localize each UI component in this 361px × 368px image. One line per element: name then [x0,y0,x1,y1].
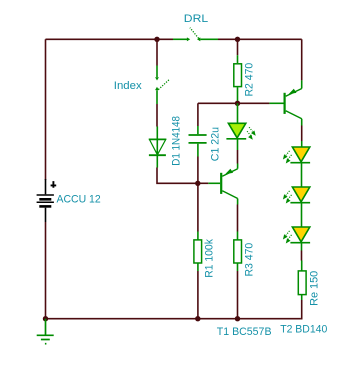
wire top rail left segment [46,38,174,40]
wire index branch upper [156,39,158,65]
LED D2 (green) anode stub [237,103,239,123]
resistor Re 150 [298,261,306,301]
resistor R2 470 [237,39,239,55]
wire node Y to R1 [197,183,199,231]
svg-text:DRL: DRL [184,13,208,25]
resistor R1 100k [194,232,202,272]
wire node X horizontal to C1 corner [198,102,238,104]
ground [37,319,54,344]
wire R3 to bottom rail [237,271,239,319]
svg-text:T2 BD140: T2 BD140 [280,324,327,336]
svg-text:R1 100k: R1 100k [204,238,216,277]
wire R1 to bottom rail [197,271,199,319]
wire right vertical top (T2 emitter to rail) [301,39,303,80]
wire top rail right segment [218,38,302,40]
resistor R3 470 [234,232,242,272]
node junction bottom-left / ground [43,316,48,321]
capacitor C1 22u [189,126,207,157]
LED D2 green [226,123,246,150]
svg-text:T1 BC557B: T1 BC557B [217,326,272,338]
wire index switch to D1 [156,104,158,127]
wire node X to T2 base [238,102,270,104]
battery B1 ACCU 12 [37,179,57,222]
wire T2 collector to LED chain [301,126,303,142]
LED D5 (yellow) [290,227,310,251]
wire T1 collector to R3 [237,205,239,232]
node Y junction [195,181,200,186]
node junction R1 / bottom rail [195,316,200,321]
wire left vertical battery to bottom rail [45,222,47,319]
switch S1 DRL [173,28,218,40]
wire C1 corner down [197,103,199,126]
diode D1 1N4148 [149,127,166,168]
LED D3 emission arrows [283,151,292,164]
node junction top rail / R2 branch [235,37,240,42]
wire D1 to node Y corner [157,168,198,184]
wire bottom rail [46,318,301,320]
svg-text:R2 470: R2 470 [244,63,256,97]
svg-text:D1 1N4148: D1 1N4148 [171,116,183,166]
node junction R3 / bottom rail [235,316,240,321]
wire LED chain to Re [301,251,303,261]
wire LED D2 to T1 emitter [237,150,239,164]
wire node Y to T1 base [198,182,208,184]
LED D4 (yellow) [290,187,310,227]
LED D2 emission arrows [247,127,256,140]
LED D5 emission arrows [283,231,292,244]
wire Re to bottom rail corner [301,300,302,319]
svg-text:Index: Index [114,80,143,92]
svg-text:R3 470: R3 470 [244,243,256,277]
svg-text:ACCU 12: ACCU 12 [57,194,101,206]
LED D4 emission arrows [283,191,292,204]
wire left vertical from top rail to battery [45,39,47,180]
node X junction [235,101,240,106]
node junction top rail / index branch [154,37,159,42]
svg-text:C1 22u: C1 22u [210,127,222,161]
switch S2 Index [157,66,169,105]
transistor T1 BC557B [208,164,237,205]
wire C1 to node Y [197,157,199,184]
transistor T2 BD140 [284,80,302,125]
svg-text:Re 150: Re 150 [309,271,321,306]
LED D3 (yellow) [290,141,310,187]
